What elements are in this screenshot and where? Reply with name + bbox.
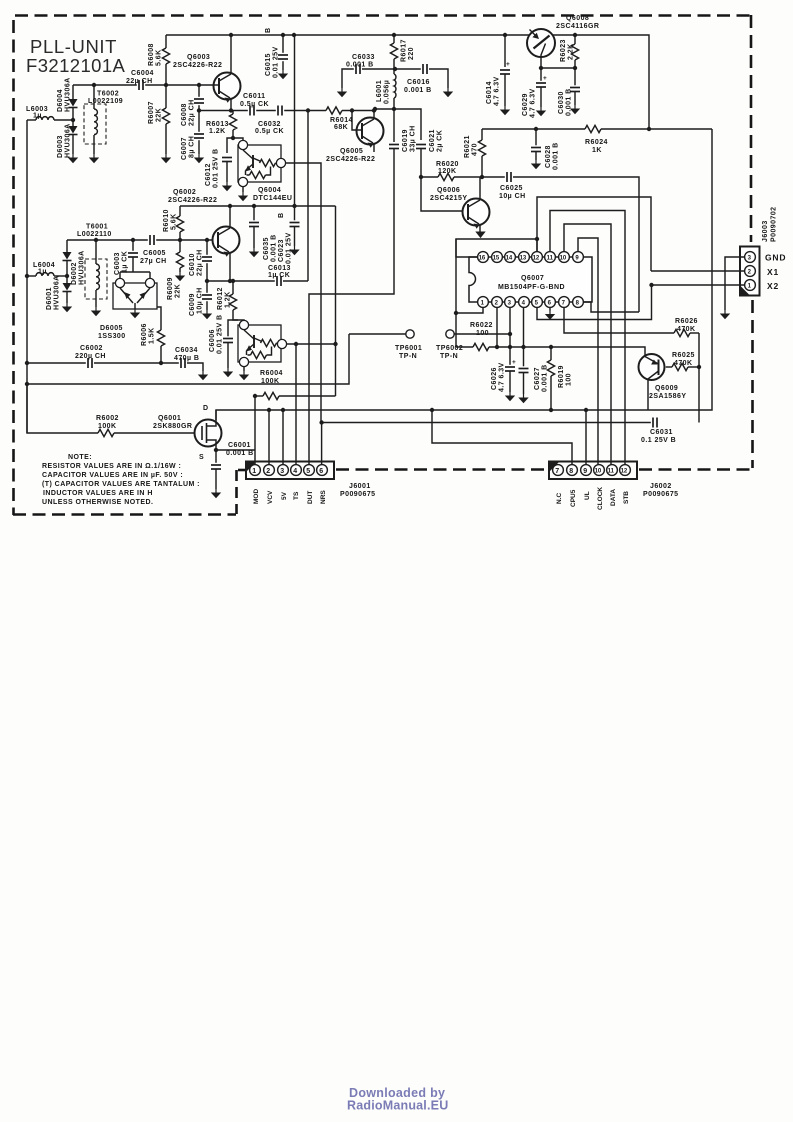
resistor R6014 [326,107,342,114]
svg-text:(T) CAPACITOR VALUES ARE TANTA: (T) CAPACITOR VALUES ARE TANTALUM : [42,481,200,488]
svg-text:33µ CH: 33µ CH [410,125,417,152]
svg-text:F3212101A: F3212101A [26,55,126,76]
SECTION_IC [349,197,674,465]
svg-text:100: 100 [566,373,573,386]
svg-text:1µ: 1µ [38,269,47,276]
capacitor C6030 [574,68,576,87]
svg-text:C6023: C6023 [278,239,285,262]
svg-text:Q6001: Q6001 [158,415,181,422]
ground for R6007 [161,154,171,163]
resistor R6006 [157,307,161,330]
svg-text:P0090702: P0090702 [771,206,778,242]
svg-text:T6001: T6001 [86,224,108,231]
svg-text:2SC4226-R22: 2SC4226-R22 [326,156,375,163]
dashed stub to J6001 [238,469,246,472]
capacitor C6004 [137,80,145,91]
svg-text:R6022: R6022 [470,322,493,329]
wire GND pin3 [725,257,745,310]
resistor R6008 [165,35,167,48]
wire supply riser x=294.5 [294,35,296,206]
svg-text:P0090675: P0090675 [643,491,679,498]
svg-text:R6009: R6009 [167,277,174,300]
capacitor C6023 [292,204,296,208]
resistor R6009 [178,238,182,242]
inductor L6001 [394,74,396,98]
svg-text:R6010: R6010 [163,209,170,232]
capacitor C6029 (electrolytic) [540,68,542,81]
svg-text:C6033: C6033 [352,54,375,61]
svg-text:D6001: D6001 [46,287,53,310]
resistor R6019 [549,345,553,349]
svg-text:+: + [506,61,510,68]
capacitor C6002 [27,362,86,364]
svg-text:C6010: C6010 [189,253,196,276]
svg-text:1µ CK: 1µ CK [268,272,290,279]
svg-text:0.01 25V B: 0.01 25V B [213,148,220,188]
svg-text:DUT: DUT [307,491,314,504]
wire drain bus y=410 [216,129,712,420]
svg-text:UL: UL [584,491,591,500]
svg-text:TS: TS [293,491,300,500]
transistor Q6009 [639,354,665,380]
capacitor C6034 [179,358,187,369]
SECTION_OSC2 [25,189,349,396]
svg-text:10: 10 [595,469,602,475]
capacitor C6008 [198,85,200,111]
wire y=110.5 to R6014 [308,110,326,112]
svg-text:0.001 B: 0.001 B [566,88,573,116]
wire pin7 to R6026 [564,308,674,333]
svg-text:R6012: R6012 [217,287,224,310]
svg-text:5: 5 [306,468,310,475]
wire supply rail y=35 [166,35,649,129]
svg-text:0.001 B: 0.001 B [404,87,432,94]
svg-text:C6032: C6032 [258,121,281,128]
inductor L6003 [27,119,36,121]
svg-text:4: 4 [293,468,297,475]
svg-text:22K: 22K [175,284,182,298]
capacitor C6016 [395,68,421,70]
resistor R6002 [27,384,98,433]
svg-text:9: 9 [583,468,587,475]
wire X2 [651,284,745,286]
svg-text:C6021: C6021 [429,129,436,152]
svg-text:7: 7 [555,468,559,475]
svg-text:470K: 470K [677,326,696,333]
IC top pin row 16-9 [478,252,584,263]
test point TP6001 [406,330,414,338]
svg-text:D6002: D6002 [71,262,78,285]
wire bracket pin12 to X1 riser [537,197,651,271]
svg-text:D: D [203,405,209,412]
svg-text:1K: 1K [592,147,602,154]
resistor R6024 [585,125,601,132]
svg-text:R6007: R6007 [148,101,155,124]
digital transistor Q6010 [238,325,281,362]
wire pin5 to X2 [537,285,652,320]
svg-text:470K: 470K [674,360,693,367]
svg-text:RESISTOR VALUES ARE IN Ω.1/16: RESISTOR VALUES ARE IN Ω.1/16W : [42,463,181,470]
wire pin3 riser [509,308,511,347]
wire VCV riser x=269 [268,410,270,465]
svg-text:14: 14 [506,256,513,262]
capacitor C6005 [148,235,156,246]
svg-text:100K: 100K [98,423,117,430]
svg-text:Q6002: Q6002 [173,189,196,196]
svg-text:Q6004: Q6004 [258,187,281,194]
wire DUT feedback riser x=308 [307,111,309,282]
wire bracket pin9 to CLOCK riser [578,238,598,465]
svg-text:HVU306A: HVU306A [54,275,61,310]
svg-text:68K: 68K [334,124,348,131]
wire emitter bus y=281 [207,280,275,282]
wire NRS bus y=422.5 [322,422,651,424]
svg-text:R6014: R6014 [330,117,353,124]
SECTION_RIGHT [549,206,786,510]
wire Q6004 output to NRS riser [286,163,321,423]
ground for T6002 [89,154,99,163]
capacitor C6025 [482,176,505,178]
capacitor C6014 (electrolytic) [504,35,506,67]
svg-text:0.1 25V B: 0.1 25V B [641,437,676,444]
transformer T6001 [85,259,107,299]
svg-text:TP6001: TP6001 [395,345,422,352]
svg-text:2SC4215Y: 2SC4215Y [430,195,467,202]
resistor R6013 [232,111,234,115]
resistor R6022 [456,346,473,348]
svg-text:8µ CH: 8µ CH [189,136,196,158]
svg-text:1µ CK: 1µ CK [122,251,129,273]
svg-text:L6001: L6001 [376,80,383,102]
svg-text:C6015: C6015 [265,53,272,76]
svg-text:8: 8 [569,468,573,475]
svg-text:+: + [512,359,516,366]
svg-text:DATA: DATA [610,489,617,506]
dashed unit border right lower [751,300,754,468]
svg-text:10µ CH: 10µ CH [499,193,526,200]
svg-text:22µ CH: 22µ CH [189,99,196,126]
capacitor C6003 [131,238,135,242]
svg-text:R6021: R6021 [464,135,471,158]
ground on pin16 rail [475,232,485,239]
SECTION_OSC1 [26,35,321,433]
wire y=129 R6024 line [482,128,585,130]
svg-text:N.C: N.C [556,493,563,505]
svg-text:10: 10 [560,256,567,262]
svg-text:C6029: C6029 [522,93,529,116]
svg-text:22K: 22K [156,108,163,122]
svg-text:4.7 6.3V: 4.7 6.3V [494,76,501,106]
svg-text:TP6002: TP6002 [436,345,463,352]
ground for C6033 [337,88,347,97]
transistor Q6002 [213,227,240,254]
wire X1 [651,270,745,272]
svg-text:C6019: C6019 [402,129,409,152]
dashed unit border bottom middle [336,468,548,471]
varactor D6003 [72,120,74,126]
node junction dots [71,118,75,122]
svg-text:D6003: D6003 [57,135,64,158]
svg-text:10µ CH: 10µ CH [197,287,204,314]
svg-text:0.01 25V B: 0.01 25V B [217,314,224,354]
svg-text:MB1504PF-G-BND: MB1504PF-G-BND [498,284,565,291]
resistor R6021 [481,129,483,140]
capacitor C6028 [534,127,538,131]
svg-text:0.001 B: 0.001 B [226,450,254,457]
resistor R6023 [574,35,576,44]
connector J6001 [246,462,334,480]
svg-text:1.2K: 1.2K [225,291,232,308]
wire Q6010 output [287,343,336,345]
ground pin6 [549,308,551,311]
wire TS riser x=296 [295,344,297,465]
svg-text:TP-N: TP-N [440,353,458,360]
IC Q6007 MB1504 [469,257,592,302]
resistor R6017 [393,35,395,43]
dashed unit border bottom right [639,468,752,471]
ground for C6007 [194,154,204,163]
svg-text:D6004: D6004 [57,89,64,112]
wire bracket pin11 to STB riser [550,211,625,466]
svg-text:R6023: R6023 [560,39,567,62]
svg-text:B: B [265,27,272,33]
connector J6002 [549,462,637,480]
svg-text:L0022110: L0022110 [77,231,112,238]
svg-text:R6019: R6019 [558,365,565,388]
SECTION_MID [166,27,712,465]
svg-text:Q6003: Q6003 [187,54,210,61]
svg-text:C6026: C6026 [491,367,498,390]
svg-text:C6025: C6025 [500,185,523,192]
svg-text:CLOCK: CLOCK [597,487,604,510]
svg-text:B: B [278,212,285,218]
wire bracket pin10 to DATA riser [564,224,611,465]
svg-text:0.001 B: 0.001 B [271,234,278,262]
wire MOD riser x=255 [254,396,256,465]
svg-text:C6027: C6027 [534,367,541,390]
svg-text:J6001: J6001 [349,483,371,490]
wire pin16 supply [456,239,537,257]
svg-text:MOD: MOD [253,489,260,504]
capacitor C6015 [282,35,284,70]
wire emitter node y=68 [541,67,575,69]
svg-text:2.2K: 2.2K [568,43,575,60]
svg-text:220: 220 [408,47,415,60]
svg-text:C6028: C6028 [545,145,552,168]
svg-text:Q6006: Q6006 [437,187,460,194]
svg-text:2SC4226-R22: 2SC4226-R22 [173,62,222,69]
transformer T6002 [84,104,106,144]
svg-text:3: 3 [280,468,284,475]
dashed unit border bottom left horizontal [13,513,236,516]
svg-text:R6006: R6006 [141,323,148,346]
svg-text:C6004: C6004 [131,70,154,77]
svg-text:11: 11 [608,469,615,475]
wire pin8 from C6025 [583,302,639,312]
svg-text:C6014: C6014 [486,81,493,104]
varactor D6001 [65,274,69,278]
svg-text:Q6005: Q6005 [340,148,363,155]
dashed unit border bottom left vertical [235,470,238,514]
svg-text:C6013: C6013 [268,265,291,272]
capacitor C6001 [214,448,218,452]
svg-text:S: S [199,454,204,461]
svg-text:L0022109: L0022109 [88,98,123,105]
svg-text:R6017: R6017 [401,39,408,62]
svg-text:UNLESS OTHERWISE NOTED.: UNLESS OTHERWISE NOTED. [42,499,153,506]
svg-text:RadioManual.EU: RadioManual.EU [347,1099,448,1113]
capacitor C6033 [342,69,354,88]
svg-text:2µ CK: 2µ CK [437,130,444,152]
resistor R6025 [666,366,672,368]
svg-text:C6031: C6031 [650,429,673,436]
wire long bus y=384 [27,334,349,384]
svg-text:DTC144EU: DTC144EU [253,195,292,202]
SECTION_MOD [27,129,712,504]
resistor R6026 [674,329,690,336]
svg-text:P0090675: P0090675 [340,491,376,498]
svg-text:Q6007: Q6007 [521,275,544,282]
svg-text:VCV: VCV [267,490,274,504]
capacitor C6032 [276,105,284,116]
svg-text:R6008: R6008 [148,43,155,66]
svg-text:220µ CH: 220µ CH [75,353,106,360]
svg-text:CPU5: CPU5 [570,489,577,507]
svg-text:STB: STB [623,491,630,504]
svg-text:C6002: C6002 [80,345,103,352]
svg-text:C6008: C6008 [181,103,188,126]
svg-text:CAPACITOR VALUES ARE IN µF. 50: CAPACITOR VALUES ARE IN µF. 50V : [42,472,183,479]
svg-text:1µ: 1µ [33,113,42,120]
diode bridge D6005 [113,283,157,309]
svg-text:R6025: R6025 [672,352,695,359]
capacitor C6026 (electrolytic) [509,347,511,366]
resistor R6007 [165,85,167,108]
svg-text:GND: GND [765,253,786,263]
transistor Q6008 [527,29,555,57]
svg-text:+: + [543,75,547,82]
svg-text:PLL-UNIT: PLL-UNIT [30,36,117,57]
capacitor C6006 [228,320,238,338]
transistor Q6006 [421,177,462,211]
svg-text:X2: X2 [767,281,779,291]
IC bottom pin row 1-8 [478,297,584,308]
FET Q6001 [195,420,222,447]
svg-text:NRS: NRS [320,490,327,504]
wire source to pin1 [216,449,255,451]
wire collector bus y=206 [180,205,336,207]
svg-text:D6005: D6005 [100,325,123,332]
capacitor C6031 [651,417,659,428]
svg-text:120K: 120K [438,168,457,175]
svg-text:TP-N: TP-N [399,353,417,360]
svg-text:2SA1586Y: 2SA1586Y [649,393,686,400]
svg-text:2: 2 [266,468,270,475]
svg-text:T6002: T6002 [97,91,119,98]
wire left column x=27 [26,120,28,433]
wire base bus y=240 [67,239,212,241]
svg-text:0.01 25V: 0.01 25V [286,232,293,264]
svg-text:2SK880GR: 2SK880GR [153,423,192,430]
svg-text:1: 1 [252,468,256,475]
svg-text:HVU306A: HVU306A [65,77,72,112]
svg-text:0.01 25V: 0.01 25V [273,46,280,78]
svg-text:5.6K: 5.6K [156,49,163,66]
capacitor C6009 [205,279,209,283]
svg-text:2SC4116GR: 2SC4116GR [556,23,599,30]
dashed unit border left [12,20,15,515]
svg-text:C6001: C6001 [228,442,251,449]
dashed unit border top [15,14,751,17]
svg-text:22µ CH: 22µ CH [197,249,204,276]
svg-text:INDUCTOR VALUES ARE IN H: INDUCTOR VALUES ARE IN H [43,490,153,497]
varactor D6004 [72,85,74,99]
svg-text:R6004: R6004 [260,370,283,377]
svg-text:X1: X1 [767,267,779,277]
resistor R6012 [232,281,234,294]
wire pin4 riser [523,308,525,347]
svg-text:C6012: C6012 [205,163,212,186]
wire riser x=699 [698,333,700,423]
wire riser x=335.5 [335,206,337,396]
svg-text:C6035: C6035 [263,237,270,260]
wire pin2 riser [496,308,498,347]
svg-text:470µ B: 470µ B [174,355,199,362]
svg-text:11: 11 [547,256,554,262]
svg-text:22µ CH: 22µ CH [126,78,153,85]
digital transistor Q6004 [233,138,243,141]
svg-text:0.001 B: 0.001 B [346,62,374,69]
svg-text:0.001 B: 0.001 B [542,364,549,392]
wire emitter bus y=110.5 [199,110,308,112]
wire UL riser [585,410,587,465]
svg-text:J6003: J6003 [762,220,769,242]
capacitor C6019 [393,109,395,142]
svg-text:C6003: C6003 [114,252,121,275]
wire NRS riser x=321.6 [321,423,323,465]
svg-text:R6013: R6013 [206,121,229,128]
svg-text:R6020: R6020 [436,161,459,168]
svg-text:C6007: C6007 [181,137,188,160]
capacitor C6012 [227,138,233,153]
svg-text:0.5µ CK: 0.5µ CK [255,128,284,135]
svg-text:470: 470 [472,143,479,156]
svg-text:J6002: J6002 [650,483,672,490]
capacitor C6021 [416,142,427,150]
svg-text:C6030: C6030 [558,91,565,114]
capacitor C6027 [523,347,525,368]
capacitor C6013 [275,276,283,287]
capacitor C6011 [248,105,256,116]
svg-text:C6009: C6009 [189,293,196,316]
ground for D6003 [68,154,78,163]
wire X2 corner [649,283,653,287]
resistor R6010 [179,206,181,216]
wire CPU5 riser [432,410,572,465]
transistor Q6005 [357,118,384,145]
svg-text:4.7 6.3V: 4.7 6.3V [530,88,537,118]
test point TP6002 [446,330,454,338]
svg-text:5.6K: 5.6K [171,213,178,230]
wire y=109 [375,109,421,140]
svg-text:0.056µ: 0.056µ [384,80,391,104]
svg-text:13: 13 [520,256,527,262]
svg-text:12: 12 [621,469,628,475]
resistor R6020 [419,175,423,179]
unnamed resistor on MOD line [255,395,263,397]
capacitor C6010 [205,238,209,242]
svg-text:R6026: R6026 [675,318,698,325]
